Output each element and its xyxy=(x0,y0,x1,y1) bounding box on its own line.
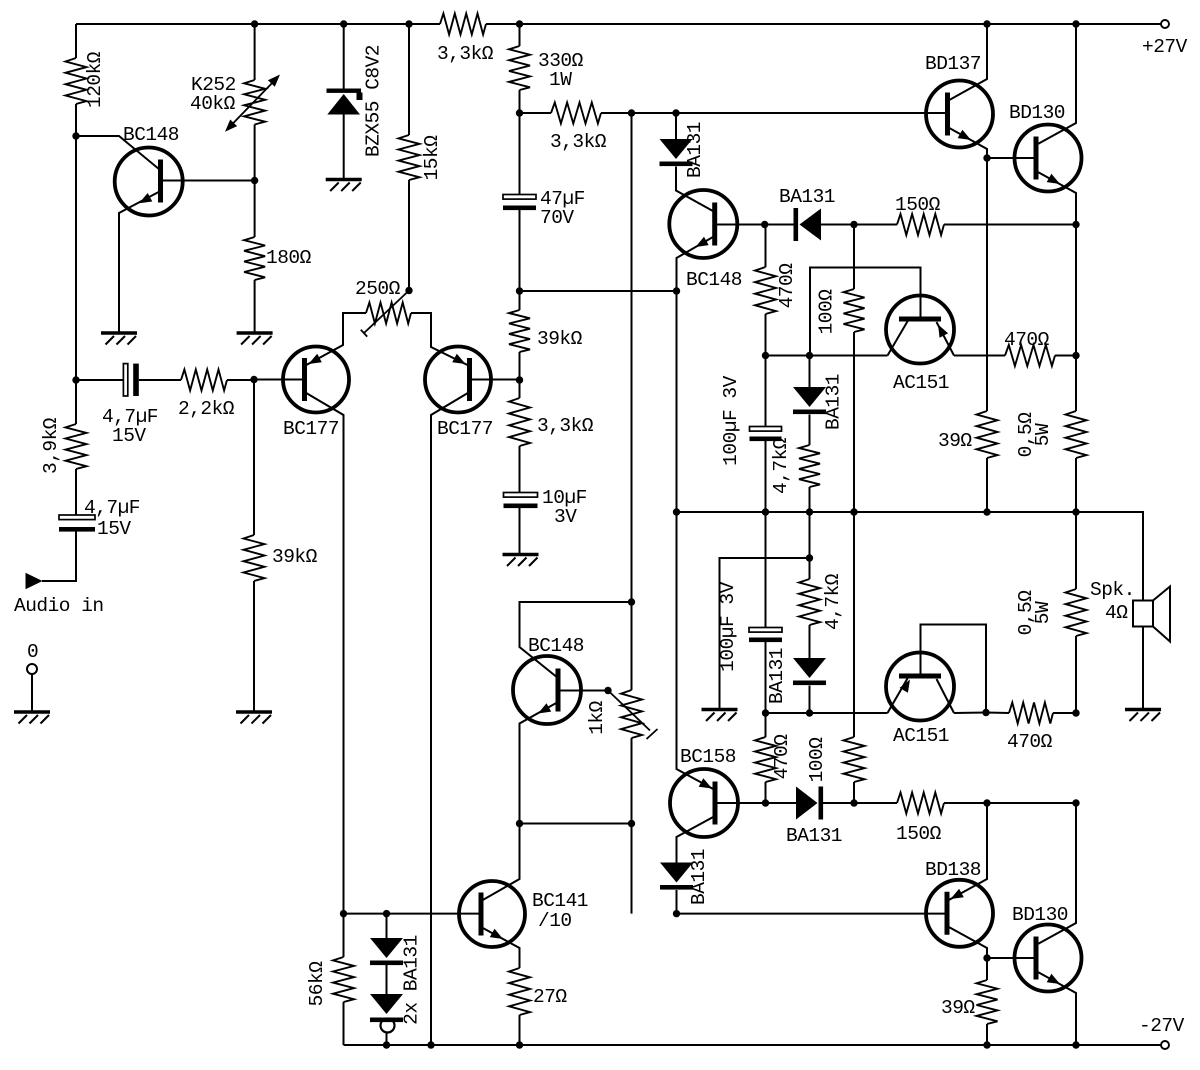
node rail/2xBA131 xyxy=(383,1041,390,1048)
resistor R 470-4 xyxy=(1007,703,1053,754)
wire top +27V rail right segment xyxy=(486,23,1161,25)
node x631/y823 xyxy=(628,820,635,827)
wire x1076 from 150R node to 0.5R-1 xyxy=(1075,225,1077,412)
wire BA131-5 to BD138 base wire xyxy=(676,890,678,914)
svg-text:120kΩ: 120kΩ xyxy=(84,51,106,108)
resistor R 4.7k-2 xyxy=(799,573,844,630)
svg-text:BC141: BC141 xyxy=(532,890,588,912)
wire 0.5R-1 to mid rail xyxy=(1075,458,1077,512)
node x631/servo collector wire xyxy=(628,598,635,605)
node rail/27R xyxy=(516,1041,523,1048)
resistor R 180 xyxy=(244,237,312,280)
svg-text:BC148: BC148 xyxy=(528,635,584,657)
node servo emitter / y823 xyxy=(516,820,523,827)
wire 56k top lead xyxy=(343,914,345,957)
transistor Q3 BC177 right xyxy=(425,347,493,441)
node rail/K252 xyxy=(251,20,258,27)
collector BC158 xyxy=(677,816,716,863)
svg-text:56kΩ: 56kΩ xyxy=(306,961,328,1007)
node rail/zener xyxy=(340,20,347,27)
capacitor C 10uF 3V xyxy=(504,487,587,528)
svg-text:15V: 15V xyxy=(112,425,146,447)
node 150R-1 / x1076 xyxy=(1072,221,1079,228)
wire x765 to 100uF-1 xyxy=(765,356,767,427)
node mid/x987 xyxy=(983,508,990,515)
transistor Q2 BC177 left xyxy=(283,347,349,441)
wire 250R left to BC177-1 emitter xyxy=(305,313,367,366)
potentiometer K252 40k xyxy=(190,74,280,132)
node BD137 emitter / BD130-1 base xyxy=(983,154,990,161)
collector BD138 xyxy=(947,926,987,958)
wire BA131-h2 to 150R-2 xyxy=(823,802,897,804)
wire BC158 base node to BA131-h2 xyxy=(766,802,797,804)
resistor R 39k-2 xyxy=(244,535,318,581)
resistor R 4.7k-1 xyxy=(770,437,820,494)
svg-text:BZX55 C8V2: BZX55 C8V2 xyxy=(363,45,385,157)
wire 10uF bottom lead xyxy=(519,508,521,553)
wire BD130-2 base lead xyxy=(987,957,1036,959)
wire x76 down to input node xyxy=(75,136,77,380)
resistor R 120k xyxy=(66,51,107,108)
node 470R-4/x1076 xyxy=(1072,709,1079,716)
node BC177-1 base xyxy=(250,376,257,383)
wire AC151-2 base loop xyxy=(921,625,987,713)
resistor R 15k xyxy=(399,135,444,181)
wire x809 mid rail to y558 node xyxy=(809,512,811,558)
wire 2.2k to BC177-1 base node xyxy=(227,379,254,381)
transistor Q9 BC148 bias servo xyxy=(513,635,584,724)
transistor Q12 BD130 lower xyxy=(1012,904,1082,992)
svg-text:39Ω: 39Ω xyxy=(938,430,972,452)
audio input arrow xyxy=(14,573,104,617)
svg-text:BC177: BC177 xyxy=(437,418,493,440)
wire 4.7k-1 to mid rail xyxy=(809,487,811,512)
svg-text:15V: 15V xyxy=(97,518,131,540)
wire 100R-2 bottom lead xyxy=(853,782,855,803)
svg-text:4,7µF: 4,7µF xyxy=(84,497,140,519)
resistor R 0.5-2 5W xyxy=(1015,589,1087,636)
wire mid rail to speaker xyxy=(1076,512,1143,601)
node rail/BC177-2 collector xyxy=(427,1041,434,1048)
wire y558 to ground branch xyxy=(720,558,810,708)
svg-text:0: 0 xyxy=(27,641,38,663)
resistor R 100-2 xyxy=(806,737,865,783)
node x809/y558 xyxy=(806,554,813,561)
terminal +27V xyxy=(1142,20,1188,58)
node mid/x854 xyxy=(850,508,857,515)
svg-text:4,7kΩ: 4,7kΩ xyxy=(770,437,792,494)
diode D BA131-h2 pointing right xyxy=(786,787,842,848)
collector AC151-2 diagonal xyxy=(937,679,955,713)
wire BC177-2 base lead xyxy=(470,379,520,381)
wire K252 bottom lead xyxy=(254,125,256,181)
emitter AC151-2 diagonal xyxy=(888,678,909,714)
node rail/330R xyxy=(516,20,523,27)
svg-text:3,3kΩ: 3,3kΩ xyxy=(537,415,594,437)
wire node to BC148-1 collector xyxy=(76,136,160,170)
wire 15k bottom lead xyxy=(408,180,410,291)
node rail/BD130-2 emitter xyxy=(1072,1041,1079,1048)
wire 470R-4 to x1076 xyxy=(1053,712,1076,714)
wire between stacked diodes xyxy=(386,965,388,994)
collector BC177-2 xyxy=(431,392,470,1045)
wire 3.3k-2 to BD137 base xyxy=(601,112,948,114)
wire servo base lead xyxy=(558,690,608,692)
wire 330R to 47uF xyxy=(519,90,521,195)
svg-text:BC177: BC177 xyxy=(283,418,339,440)
resistor R 150-2 xyxy=(896,793,944,846)
node rail/BD130-1 collector xyxy=(1072,20,1079,27)
wire 15k top lead xyxy=(408,24,410,135)
wire zener top lead xyxy=(343,24,345,89)
node y113/BA131-1 xyxy=(672,109,679,116)
node BC177-2 base xyxy=(516,376,523,383)
ground speaker xyxy=(1125,710,1161,722)
svg-text:BC148: BC148 xyxy=(123,124,179,146)
node mid/x676 xyxy=(673,508,680,515)
wire 39k-3 top lead xyxy=(519,291,521,310)
svg-text:100µF 3V: 100µF 3V xyxy=(720,375,742,465)
wire top +27V rail left segment xyxy=(76,23,440,25)
diode D BA131-5 xyxy=(660,849,710,905)
wire 39R-2 top lead xyxy=(986,958,988,980)
svg-text:3,9kΩ: 3,9kΩ xyxy=(40,417,62,474)
node rail/39R-2 xyxy=(983,1041,990,1048)
wire 120k bottom to node xyxy=(75,104,77,136)
wire BA131-1 to driver collector xyxy=(676,167,715,213)
wire x676 mid rail to BC158 emitter xyxy=(677,512,716,790)
capacitor C 100uF-2 3V xyxy=(717,581,782,671)
terminal 0 reference xyxy=(27,641,38,674)
svg-text:BA131: BA131 xyxy=(766,648,788,704)
wire x1076 mid rail to 0.5R-2 xyxy=(1075,512,1077,589)
resistor R 27 xyxy=(509,968,567,1015)
resistor R 150-1 xyxy=(895,194,944,235)
wire 100uF-1 to mid rail xyxy=(765,441,767,512)
node y113/x631 xyxy=(628,109,635,116)
node mid/x809 xyxy=(806,508,813,515)
node rail/15k xyxy=(405,20,412,27)
transistor Q1 BC148 input xyxy=(115,124,183,216)
svg-text:100Ω: 100Ω xyxy=(816,289,838,335)
wire mid rail to 100uF-2 xyxy=(765,512,767,628)
resistor R 0.5-1 5W xyxy=(1015,411,1087,458)
node x343/y913 xyxy=(340,910,347,917)
collector BC141 xyxy=(481,824,520,902)
wire BA131-1 anode lead xyxy=(675,113,677,139)
wire 3.9k top lead xyxy=(75,380,77,424)
wire 100uF-2 to y713 xyxy=(765,642,767,713)
diode D BA131-4b of 2x BA131 xyxy=(370,935,423,1032)
wire BC148-1 base lead to right node xyxy=(161,180,255,182)
node servo base / 1k wiper xyxy=(604,687,611,694)
resistor R 39-1 xyxy=(938,411,998,458)
emitter BC148 driver with arrow xyxy=(677,236,715,291)
wire x676 emitter bus down to mid rail xyxy=(676,291,678,512)
terminal -27V xyxy=(1139,1015,1185,1049)
svg-text:Audio in: Audio in xyxy=(14,595,104,617)
wire 470R-3 top lead xyxy=(765,713,767,737)
svg-text:BA131: BA131 xyxy=(786,825,842,847)
wire y823 servo emitter to x631 xyxy=(520,823,632,825)
transistor Q11 BD138 xyxy=(925,859,993,947)
wire 3.9k to cap 4.7u-2 xyxy=(75,469,77,515)
svg-text:40kΩ: 40kΩ xyxy=(190,93,236,115)
transistor Q13 BC141/10 xyxy=(459,881,588,947)
ground 0 terminal xyxy=(14,712,50,724)
wire speaker to ground xyxy=(1142,627,1144,709)
node 470R-2/x1076 xyxy=(1072,352,1079,359)
node rail/BD137 collector xyxy=(983,20,990,27)
svg-text:BD130: BD130 xyxy=(1012,904,1068,926)
svg-text:+27V: +27V xyxy=(1142,36,1188,58)
resistor R 330 1W xyxy=(509,46,584,91)
wire base node to 39k-2 xyxy=(253,380,255,536)
ground 100uF-2 branch xyxy=(702,710,738,722)
capacitor C 100uF-1 3V xyxy=(720,375,782,465)
resistor R 470-1 xyxy=(755,263,798,314)
wire AC151-2 collector to base tie xyxy=(954,712,986,715)
node driver emitter / y291 xyxy=(673,287,680,294)
wire 2xBA131 to bottom rail xyxy=(386,1033,388,1046)
node 47uF/39k junction xyxy=(516,287,523,294)
capacitor C 47uF 70V xyxy=(503,188,585,229)
wire y713 node row xyxy=(766,712,888,714)
svg-text:470Ω: 470Ω xyxy=(1007,731,1053,753)
wire x631 down to BD138 base wire xyxy=(631,824,633,914)
wire BD138 base lead xyxy=(677,913,948,915)
wire 100-1 top lead xyxy=(853,225,855,290)
svg-text:-27V: -27V xyxy=(1139,1015,1185,1037)
node x765/y713 xyxy=(762,709,769,716)
resistor R 3.3k-2 xyxy=(550,103,607,154)
node BA131-5 / y913 xyxy=(673,910,680,917)
wire BC177-1 collector node row xyxy=(344,913,482,915)
wire 3.3k-3 to 10uF xyxy=(519,446,521,493)
wire 470R-2 to x1076 xyxy=(1055,355,1076,357)
wire 150R-2 to x1076 xyxy=(944,802,1076,804)
wire 4.7k-2 to BA131-3 xyxy=(809,625,811,658)
wire 0.5R-2 to 470R-4 node xyxy=(1075,636,1077,713)
wire 470-1 top lead xyxy=(765,225,767,268)
svg-text:BD138: BD138 xyxy=(925,859,981,881)
svg-text:3V: 3V xyxy=(554,506,577,528)
wire bottom -27V rail xyxy=(344,1044,1162,1046)
wire x987 from emitter node to 39R-1 xyxy=(986,158,988,411)
ground zener xyxy=(326,180,362,192)
svg-text:4Ω: 4Ω xyxy=(1105,602,1128,624)
wire BC177-1 base lead xyxy=(254,379,305,381)
node y803/x987 BD138 emitter xyxy=(983,799,990,806)
transistor Q5 AC151 upper bias diode xyxy=(886,296,954,395)
node y224/x854 xyxy=(850,221,857,228)
transistor Q6 BD137 xyxy=(925,53,993,148)
node mid/x765 xyxy=(762,508,769,515)
wire BA131-2 anode lead xyxy=(809,356,811,388)
svg-text:470Ω: 470Ω xyxy=(771,734,793,780)
wire x631 from 1k pot to y823 xyxy=(631,738,633,824)
node BC158 base / 470R-3 xyxy=(762,799,769,806)
node 15k / 250R wiper xyxy=(405,287,412,294)
wire 3.3k-2 left lead xyxy=(520,112,552,114)
collector AC151-1 diagonal xyxy=(888,321,909,356)
wire 2xBA131 top lead xyxy=(386,914,388,938)
wire K252 top lead xyxy=(254,24,256,80)
svg-text:470Ω: 470Ω xyxy=(1004,329,1050,351)
potentiometer R 1k preset xyxy=(586,690,658,739)
node mid/x1076 xyxy=(1072,508,1079,515)
diode D BA131-3 xyxy=(766,648,826,704)
wire 330R top lead xyxy=(519,24,521,46)
wire base node to BA131-h1 xyxy=(765,224,794,226)
resistor 3.3k-1 in top rail xyxy=(437,14,494,66)
resistor R 3.9k xyxy=(40,417,87,474)
node 120k/feedback junction xyxy=(72,132,79,139)
svg-text:150Ω: 150Ω xyxy=(896,823,942,845)
resistor R 470-2 xyxy=(1004,329,1055,366)
wire 150R-1 to x1076 xyxy=(944,224,1076,226)
svg-text:AC151: AC151 xyxy=(893,725,949,747)
svg-text:BD137: BD137 xyxy=(925,53,981,75)
svg-text:1kΩ: 1kΩ xyxy=(586,700,608,734)
wire AC151-1 base loop xyxy=(810,268,921,356)
wire cap to 2.2k xyxy=(139,379,181,381)
resistor R 3.3k-3 xyxy=(509,398,594,446)
wire 39R-1 to mid rail xyxy=(986,458,988,512)
wire 47uF bottom lead xyxy=(519,210,521,291)
node driver base / 470R-1 xyxy=(761,221,768,228)
svg-text:39Ω: 39Ω xyxy=(941,997,975,1019)
transistor Q7 BD130 upper xyxy=(1009,102,1082,192)
svg-text:70V: 70V xyxy=(540,207,574,229)
node AC151-2 base tie xyxy=(982,709,989,716)
wire base tie to 470R-4 xyxy=(986,712,1009,715)
svg-text:150Ω: 150Ω xyxy=(895,194,941,216)
resistor R 39k-3 xyxy=(509,310,583,352)
emitter BD130-1 xyxy=(1036,171,1076,225)
speaker Spk 4R xyxy=(1090,579,1170,642)
emitter BC141 xyxy=(481,927,520,968)
wire 250R right to BC177-2 emitter xyxy=(411,313,470,366)
collector BC177-1 xyxy=(305,392,344,914)
emitter BD137 xyxy=(948,127,988,158)
wire BA131-2 to 4.7k-1 xyxy=(809,415,811,446)
svg-text:BA131: BA131 xyxy=(823,374,845,430)
node 330R/3.3k-2 junction xyxy=(516,109,523,116)
node x809/y713 xyxy=(806,709,813,716)
svg-text:3,3kΩ: 3,3kΩ xyxy=(550,131,607,153)
emitter BC148-1 with arrow xyxy=(119,191,161,333)
wire x631 bus from y113 to 1k pot xyxy=(631,113,633,690)
node x854 / BC158 base row xyxy=(850,799,857,806)
node y803/x1076 xyxy=(1072,799,1079,806)
node x765/y355 xyxy=(762,352,769,359)
wire 0 terminal to ground xyxy=(31,674,33,711)
collector BD130-2 xyxy=(1036,803,1076,945)
svg-text:39kΩ: 39kΩ xyxy=(537,328,583,350)
wire 39k-2 to ground xyxy=(253,581,255,711)
emitter BD130-2 xyxy=(1036,971,1076,1045)
wire BA131-3 to y713 xyxy=(809,686,811,714)
node BD138 collector / BD130-2 base xyxy=(983,954,990,961)
svg-text:2,2kΩ: 2,2kΩ xyxy=(178,398,235,420)
resistor R 39-2 xyxy=(941,980,998,1024)
emitter BD138 xyxy=(947,803,987,901)
svg-text:39kΩ: 39kΩ xyxy=(272,546,318,568)
svg-text:3,3kΩ: 3,3kΩ xyxy=(437,43,494,65)
wire 180R bottom lead xyxy=(254,280,256,333)
svg-text:AC151: AC151 xyxy=(893,372,949,394)
svg-text:Spk.: Spk. xyxy=(1090,579,1135,601)
ground 39k-2 xyxy=(236,712,272,724)
wire mid rail output node xyxy=(677,511,1077,513)
wire x854 from 100-1 down to 100-2 xyxy=(853,332,855,737)
wire BC158 base lead xyxy=(715,802,766,804)
wire 4.7k-2 top lead xyxy=(809,558,811,579)
emitter BC148 servo with arrow xyxy=(520,702,559,824)
node 2xBA131/y913 xyxy=(383,910,390,917)
potentiometer R 250 balance xyxy=(355,278,411,337)
capacitor C 4.7uF-2 xyxy=(59,497,140,540)
svg-text:15kΩ: 15kΩ xyxy=(421,135,443,181)
node AC151-1 base tie xyxy=(806,352,813,359)
ground 180R xyxy=(237,333,273,345)
wire BC148 driver base lead xyxy=(715,224,765,226)
diode D BA131-1 xyxy=(660,122,707,178)
capacitor C 4.7uF-1 xyxy=(102,364,158,447)
ground BC148-1 emitter xyxy=(101,333,137,345)
svg-text:/10: /10 xyxy=(538,910,572,932)
svg-text:BA131: BA131 xyxy=(779,186,835,208)
transistor Q8 AC151 lower bias diode xyxy=(886,653,954,748)
resistor R 100-1 xyxy=(816,289,865,335)
svg-text:180Ω: 180Ω xyxy=(266,247,312,269)
wire 39R-2 to bottom rail xyxy=(986,1024,988,1045)
svg-text:5W: 5W xyxy=(1032,423,1054,446)
transistor Q4 BC148 driver xyxy=(669,190,742,291)
wire BD130-1 base lead xyxy=(987,157,1036,159)
wire BA131-h1 to 150R-1 xyxy=(821,224,897,226)
wire y355 node row xyxy=(766,355,888,357)
wire zener bottom lead xyxy=(343,115,345,179)
wire AC151-1 emitter to 470R-2 xyxy=(954,355,1005,357)
resistor R 470-3 xyxy=(755,734,793,782)
zener diode BZX55 C8V2 xyxy=(327,45,385,157)
diode D BA131-4a xyxy=(370,938,403,965)
wire input node to cap 4.7uF-1 xyxy=(76,379,123,381)
resistor R 56k xyxy=(306,957,354,1006)
svg-text:2x BA131: 2x BA131 xyxy=(401,935,423,1025)
wire 120k top lead xyxy=(75,24,77,58)
svg-text:BC148: BC148 xyxy=(686,269,742,291)
wire 56k to bottom rail corner xyxy=(343,1002,345,1045)
node BC148-1 base / 180R xyxy=(251,177,258,184)
wire 47uF node to driver emitter node xyxy=(520,290,677,292)
emitter AC151-1 diagonal xyxy=(937,322,955,356)
svg-text:BA131: BA131 xyxy=(684,122,706,178)
wire 27R to bottom rail xyxy=(519,1015,521,1045)
wire 3.3k-3 top lead xyxy=(519,380,521,398)
wire servo collector to x631 xyxy=(520,602,632,678)
svg-text:250Ω: 250Ω xyxy=(355,278,401,300)
collector BD137 xyxy=(948,24,988,101)
node input divider junction xyxy=(72,376,79,383)
svg-text:1W: 1W xyxy=(549,69,572,91)
svg-text:470Ω: 470Ω xyxy=(776,263,798,309)
svg-text:4,7kΩ: 4,7kΩ xyxy=(822,573,844,630)
svg-text:BD130: BD130 xyxy=(1009,102,1065,124)
resistor R 2.2k xyxy=(178,370,235,421)
